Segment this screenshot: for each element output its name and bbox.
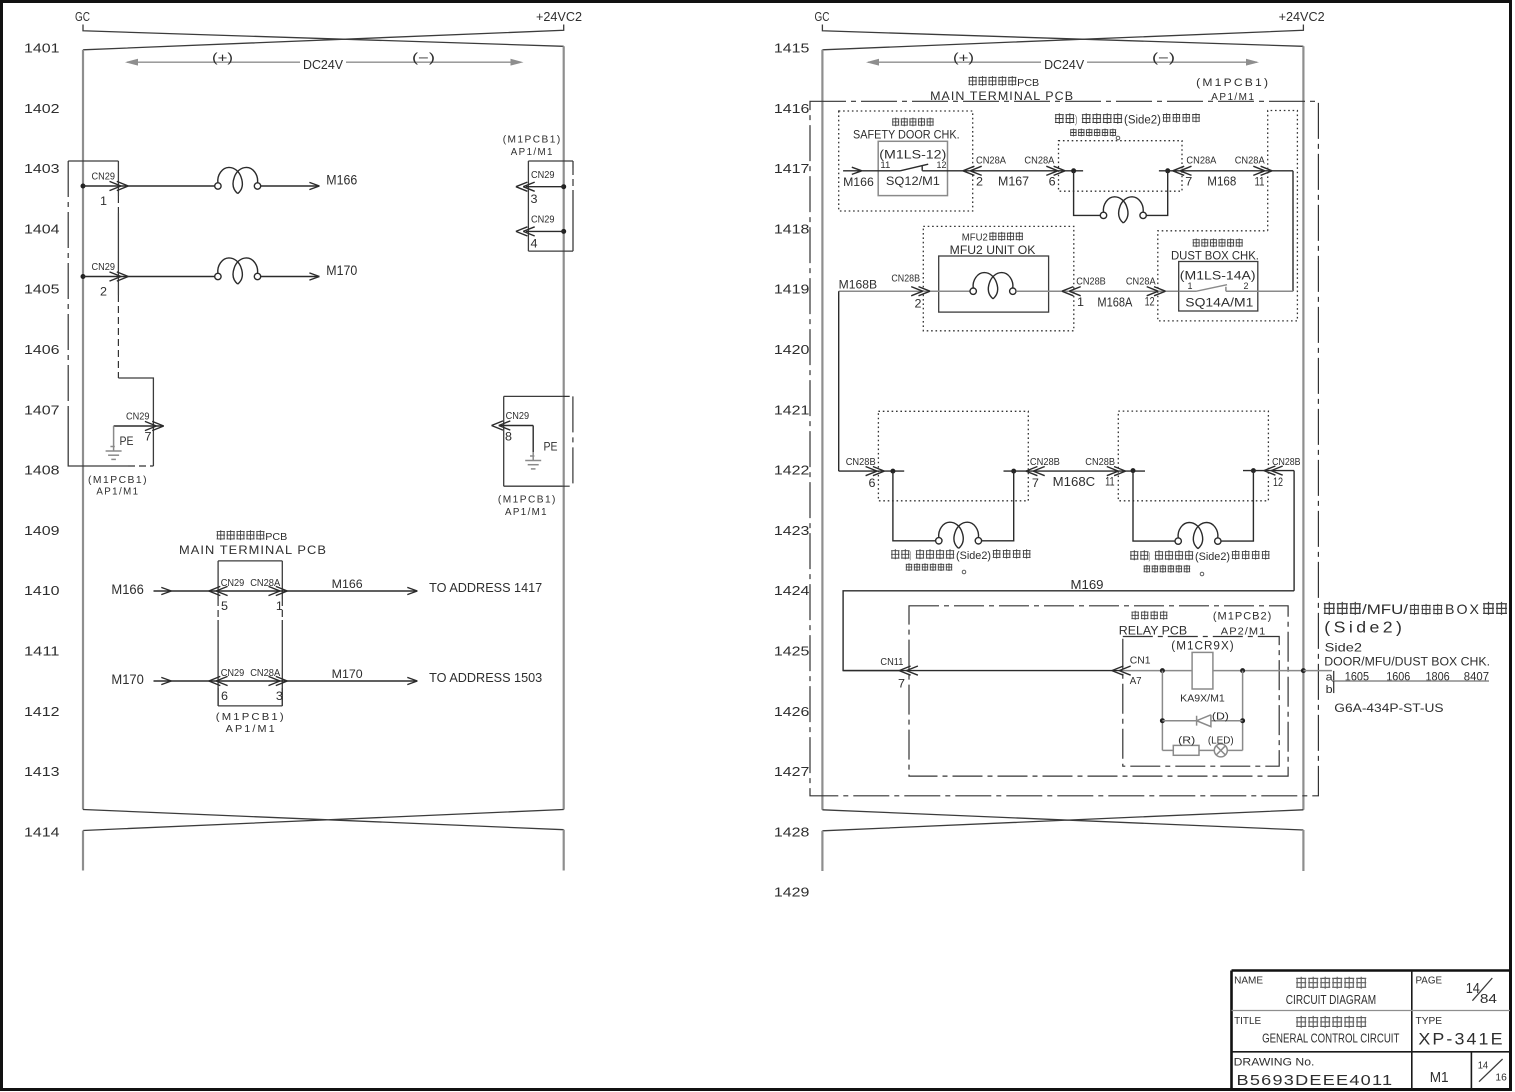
svg-text:MFU2 UNIT OK: MFU2 UNIT OK bbox=[950, 245, 1036, 257]
connector CN28B pin 7 bbox=[1026, 467, 1045, 476]
svg-text:CN28A: CN28A bbox=[250, 667, 280, 679]
svg-text:1426: 1426 bbox=[774, 704, 810, 719]
arrow to M166 bbox=[309, 182, 319, 189]
connector CN28A pin 3 bbox=[269, 676, 288, 685]
arrow to M170 bbox=[309, 273, 319, 280]
svg-text:CN28B: CN28B bbox=[891, 272, 920, 284]
svg-text:AP1/M1: AP1/M1 bbox=[505, 506, 548, 518]
connector box CN29 pin 8 / PE bbox=[504, 396, 563, 486]
connector CN29 pin 6 bbox=[209, 676, 228, 685]
svg-text:M170: M170 bbox=[111, 672, 143, 687]
wire +24VC2 bus (left) bbox=[563, 46, 565, 809]
svg-text:5: 5 bbox=[221, 599, 228, 613]
svg-text:DUST BOX CHK.: DUST BOX CHK. bbox=[1171, 250, 1259, 262]
svg-text:1428: 1428 bbox=[774, 824, 810, 839]
connector CN1 pin A7 bbox=[1112, 666, 1131, 675]
connector CN28B pin 6 bbox=[866, 467, 885, 476]
note dotted box (spare input row 1417) bbox=[1059, 141, 1183, 192]
label 安全扉/MFU/ダストBOX確認 bbox=[1324, 602, 1361, 615]
label 時はショートする。 bbox=[1070, 129, 1116, 137]
svg-text:1416: 1416 bbox=[774, 101, 810, 116]
junction node row 1417 right bbox=[1165, 168, 1170, 173]
wire M166 through terminal block bbox=[154, 590, 418, 592]
svg-text:TYPE: TYPE bbox=[1416, 1015, 1443, 1027]
svg-text:）: ） bbox=[910, 551, 915, 563]
svg-text:BOX: BOX bbox=[1445, 601, 1481, 617]
svg-text:/MFU/: /MFU/ bbox=[1362, 601, 1408, 617]
svg-text:1: 1 bbox=[276, 599, 283, 613]
svg-text:SQ14A/M1: SQ14A/M1 bbox=[1185, 298, 1253, 310]
connector CN29 pin 2 bbox=[110, 272, 129, 281]
svg-text:CN11: CN11 bbox=[880, 656, 903, 668]
relay inner chain box bbox=[1123, 637, 1279, 767]
wire coil to M170 arrow bbox=[261, 276, 320, 278]
svg-text:1412: 1412 bbox=[24, 704, 60, 719]
svg-text:1421: 1421 bbox=[774, 402, 810, 417]
wire CN11-7 to CN1-A7 bbox=[843, 670, 1123, 672]
connector CN28B pin 1 bbox=[1062, 287, 1081, 296]
svg-text:DC24V: DC24V bbox=[1044, 58, 1085, 72]
connector CN28A pin 1 bbox=[269, 586, 288, 595]
svg-text:GC: GC bbox=[75, 9, 90, 24]
svg-text:M168B: M168B bbox=[839, 280, 878, 292]
wire bus to CN29-4 bbox=[526, 230, 564, 232]
svg-text:2: 2 bbox=[915, 297, 922, 311]
connector CN29 pin 1 bbox=[110, 181, 129, 190]
note dotted box (spare input row 1422 left) bbox=[878, 411, 1028, 501]
junction on +24VC2 bus (CN29-4) bbox=[561, 229, 566, 234]
svg-text:12: 12 bbox=[1145, 295, 1155, 309]
svg-text:CN28A: CN28A bbox=[1235, 155, 1265, 167]
svg-text:11: 11 bbox=[1255, 175, 1265, 189]
svg-text:(M1PCB1): (M1PCB1) bbox=[88, 474, 148, 486]
svg-text:(−): (−) bbox=[1152, 51, 1175, 65]
box MFU2 unit bbox=[939, 256, 1049, 312]
svg-text:1401: 1401 bbox=[24, 41, 60, 56]
block MFU2 UNIT OK dotted outline bbox=[923, 226, 1074, 330]
wire CN1-A7 to relay coil bbox=[1123, 670, 1192, 672]
title block bbox=[1232, 971, 1511, 1090]
svg-text:1429: 1429 bbox=[774, 885, 810, 900]
wire row 1422 left bbox=[839, 470, 905, 472]
svg-text:1410: 1410 bbox=[24, 583, 60, 598]
svg-text:M168A: M168A bbox=[1097, 295, 1132, 310]
svg-text:MAIN TERMINAL PCB: MAIN TERMINAL PCB bbox=[179, 543, 327, 557]
svg-text:CN29: CN29 bbox=[126, 411, 150, 423]
junction row 1422 c bbox=[1131, 468, 1136, 473]
bus crossover top (left) bbox=[83, 25, 564, 50]
address line numbers 1415-1429 bbox=[774, 41, 810, 900]
note 時はショートする。 (left) bbox=[906, 563, 953, 571]
address line numbers 1401-1414 bbox=[24, 41, 60, 840]
svg-text:1411: 1411 bbox=[24, 644, 60, 659]
wire M170 through terminal block bbox=[154, 680, 418, 682]
arrow to address 1417 bbox=[407, 587, 417, 594]
page slash bbox=[1472, 978, 1492, 1001]
svg-text:TO ADDRESS 1417: TO ADDRESS 1417 bbox=[429, 581, 542, 595]
wire CN29-8 to PE bbox=[499, 425, 533, 427]
resistor R bbox=[1162, 749, 1173, 751]
svg-text:PE: PE bbox=[120, 436, 134, 448]
svg-text:(M1PCB1): (M1PCB1) bbox=[503, 134, 562, 146]
svg-text:CN29: CN29 bbox=[92, 261, 116, 273]
svg-text:CN28B: CN28B bbox=[846, 456, 876, 468]
wire coil to M166 arrow bbox=[261, 185, 320, 187]
svg-text:CN29: CN29 bbox=[531, 169, 555, 181]
svg-text:SQ12/M1: SQ12/M1 bbox=[886, 176, 940, 188]
svg-text:7: 7 bbox=[1032, 476, 1039, 490]
svg-text:(−): (−) bbox=[412, 51, 435, 65]
junction relay right bbox=[1240, 668, 1245, 673]
svg-text:(M1PCB1): (M1PCB1) bbox=[1196, 77, 1270, 89]
PCB M1PCB1 outline (left, CN29 connector region) bbox=[68, 160, 118, 162]
wire bridge with coupling coil (row 1417-1418) bbox=[1074, 171, 1168, 216]
svg-text:M168C: M168C bbox=[1053, 474, 1096, 489]
junction row 1422 d bbox=[1251, 468, 1256, 473]
diode D bbox=[1197, 715, 1211, 727]
svg-text:CN28B: CN28B bbox=[1076, 276, 1106, 288]
wire GC bus (right) bbox=[821, 50, 823, 810]
switch box M1LS-14A bbox=[1179, 262, 1258, 312]
svg-text:(M1PCB2): (M1PCB2) bbox=[1213, 611, 1272, 623]
svg-text:1402: 1402 bbox=[24, 101, 60, 116]
connector CN29 pin 7 bbox=[145, 421, 164, 430]
svg-text:）: ） bbox=[1149, 552, 1154, 564]
ground PE (left) bbox=[106, 426, 122, 459]
svg-text:AP1/M1: AP1/M1 bbox=[226, 723, 277, 735]
svg-text:PCB: PCB bbox=[265, 531, 287, 543]
svg-text:(M1PCB1): (M1PCB1) bbox=[216, 711, 286, 723]
svg-text:M170: M170 bbox=[326, 263, 357, 278]
svg-text:CN1: CN1 bbox=[1130, 654, 1151, 666]
svg-text:B5693DEEE4011: B5693DEEE4011 bbox=[1237, 1073, 1394, 1089]
svg-text:2: 2 bbox=[100, 285, 107, 299]
svg-text:1424: 1424 bbox=[774, 583, 810, 598]
svg-text:(D): (D) bbox=[1212, 712, 1229, 723]
svg-text:(+): (+) bbox=[212, 51, 233, 65]
PCB boundary chain (right PE box) bbox=[572, 396, 574, 486]
svg-text:CN28B: CN28B bbox=[1272, 456, 1300, 468]
svg-text:M168: M168 bbox=[1207, 174, 1236, 189]
ground PE (right) bbox=[525, 452, 541, 469]
svg-text:M166: M166 bbox=[111, 582, 143, 597]
svg-text:GC: GC bbox=[815, 9, 830, 24]
wire +24VC2 bus stub bottom (left) bbox=[563, 830, 565, 871]
arrow M166 in bbox=[852, 167, 862, 174]
wire GC bus (left) bbox=[82, 50, 84, 810]
svg-text:1419: 1419 bbox=[774, 282, 810, 297]
svg-text:1407: 1407 bbox=[24, 402, 60, 417]
svg-text:M166: M166 bbox=[843, 177, 874, 189]
connector CN11 pin 7 bbox=[899, 666, 918, 675]
svg-text:1414: 1414 bbox=[24, 824, 60, 839]
svg-text:M1: M1 bbox=[1430, 1070, 1449, 1086]
svg-text:CN29: CN29 bbox=[221, 577, 245, 589]
svg-text:8: 8 bbox=[505, 430, 512, 444]
bus crossover bottom (left) bbox=[83, 810, 564, 831]
svg-text:CN28A: CN28A bbox=[976, 155, 1006, 167]
svg-text:）: ） bbox=[1075, 114, 1081, 127]
coupling coil MFU2 bbox=[970, 273, 1016, 299]
svg-text:CN28A: CN28A bbox=[250, 577, 280, 589]
svg-text:RELAY PCB: RELAY PCB bbox=[1119, 626, 1188, 638]
svg-text:1415: 1415 bbox=[774, 41, 810, 56]
connector CN29 pin 8 bbox=[492, 421, 511, 430]
svg-text:CN28A: CN28A bbox=[1126, 276, 1156, 288]
svg-text:7: 7 bbox=[1185, 175, 1192, 189]
connector CN28A pin 6 bbox=[1046, 166, 1065, 175]
connector CN29 pin 3 bbox=[516, 182, 535, 191]
svg-text:CN29: CN29 bbox=[92, 171, 116, 183]
diode branch bbox=[1162, 671, 1242, 751]
svg-text:(Side2): (Side2) bbox=[1195, 551, 1230, 563]
connector CN29 pin 4 bbox=[516, 227, 535, 236]
wire vertical to SQ14A bbox=[1292, 171, 1294, 291]
wire CN28B-12 down to M169 bbox=[1293, 471, 1295, 591]
bus crossover bottom (right) bbox=[822, 810, 1303, 831]
wire bridge with coupling coil (row 1422-1423 left) bbox=[893, 471, 1014, 541]
svg-text:1404: 1404 bbox=[24, 221, 60, 236]
svg-text:(Side2): (Side2) bbox=[956, 550, 991, 562]
wire +24VC2 bus stub bottom (right) bbox=[1302, 830, 1304, 871]
wire row 1405 from bus to CN29-2 bbox=[83, 276, 128, 278]
svg-text:2: 2 bbox=[976, 175, 983, 189]
wire bus to CN29-3 bbox=[526, 186, 564, 188]
junction node row 1417 left bbox=[1071, 168, 1076, 173]
note dotted box (spare input row 1422 right) bbox=[1118, 411, 1268, 501]
svg-text:6: 6 bbox=[221, 689, 228, 703]
junction on +24VC2 bus (relay) bbox=[1301, 668, 1306, 673]
svg-text:1417: 1417 bbox=[774, 161, 810, 176]
junction row 1422 b bbox=[1011, 469, 1016, 474]
svg-text:12: 12 bbox=[1273, 475, 1283, 489]
wire M168C bbox=[1004, 470, 1146, 472]
svg-text:KA9X/M1: KA9X/M1 bbox=[1180, 693, 1225, 705]
svg-text:TITLE: TITLE bbox=[1234, 1015, 1261, 1027]
switch SQ14A/M1 limit switch contact bbox=[1179, 285, 1293, 292]
title 総合制御回路 bbox=[1296, 1016, 1366, 1028]
svg-text:1418: 1418 bbox=[774, 221, 810, 236]
svg-text:M170: M170 bbox=[332, 667, 363, 681]
label メイン中継PCB (right) bbox=[968, 76, 1016, 86]
junction on GC bus row 1403 bbox=[81, 184, 86, 189]
junction diode left bbox=[1160, 718, 1165, 723]
wire +24VC2 bus (right) bbox=[1302, 46, 1304, 810]
coupling coil L row 1403 bbox=[215, 167, 261, 193]
switch SQ12/M1 limit switch contact bbox=[843, 164, 1083, 171]
wire CN29-1 to coil bbox=[128, 185, 214, 187]
svg-text:CN28A: CN28A bbox=[1186, 155, 1216, 167]
svg-text:TO ADDRESS 1503: TO ADDRESS 1503 bbox=[429, 671, 542, 685]
connector CN28A pin 11 bbox=[1253, 166, 1272, 175]
svg-text:CN29: CN29 bbox=[531, 214, 555, 226]
svg-text:PCB: PCB bbox=[1017, 77, 1039, 89]
svg-text:+24VC2: +24VC2 bbox=[536, 9, 582, 24]
junction on +24VC2 bus (CN29-3) bbox=[561, 184, 566, 189]
svg-text:1423: 1423 bbox=[774, 523, 810, 538]
svg-text:(Side2): (Side2) bbox=[1324, 620, 1405, 637]
svg-text:PAGE: PAGE bbox=[1416, 974, 1443, 986]
svg-text:1427: 1427 bbox=[774, 764, 810, 779]
svg-text:M167: M167 bbox=[998, 174, 1029, 189]
junction relay left bbox=[1160, 668, 1165, 673]
connector box CN29/CN28A (main terminal pcb left) bbox=[218, 561, 282, 706]
svg-text:11: 11 bbox=[1105, 474, 1115, 488]
label 安全扉確認 bbox=[892, 118, 934, 127]
wire M168B vertical to row 1422 bbox=[838, 291, 840, 471]
svg-text:3: 3 bbox=[276, 689, 283, 703]
wire M168B (row 1419) bbox=[839, 290, 970, 292]
svg-text:7: 7 bbox=[145, 430, 152, 444]
PCB RELAY PCB chain box bbox=[909, 606, 1288, 776]
svg-text:A7: A7 bbox=[1130, 675, 1142, 687]
wire M169 bbox=[843, 591, 1294, 671]
svg-text:(M1CR9X): (M1CR9X) bbox=[1171, 640, 1234, 652]
svg-text:7: 7 bbox=[898, 677, 905, 691]
connector CN28B pin 11 bbox=[1107, 467, 1126, 476]
svg-text:1420: 1420 bbox=[774, 342, 810, 357]
junction row 1422 a bbox=[890, 469, 895, 474]
wire CN29-2 to coil bbox=[128, 276, 214, 278]
svg-text:2: 2 bbox=[1244, 281, 1249, 292]
svg-text:12: 12 bbox=[937, 160, 947, 171]
wire to Side2 contact a bbox=[1303, 670, 1332, 672]
label 注)予備入力(Side2)の付かない bbox=[1055, 113, 1074, 124]
svg-text:GENERAL CONTROL CIRCUIT: GENERAL CONTROL CIRCUIT bbox=[1262, 1031, 1400, 1045]
svg-text:1422: 1422 bbox=[774, 463, 810, 478]
junction on GC bus row 1405 bbox=[81, 274, 86, 279]
wire GC bus stub bottom (right) bbox=[821, 831, 823, 871]
wire relay coil to bus bbox=[1213, 670, 1304, 672]
svg-text:1409: 1409 bbox=[24, 523, 60, 538]
svg-text:AP1/M1: AP1/M1 bbox=[511, 146, 554, 158]
connector CN29 pin 5 bbox=[209, 586, 228, 595]
svg-text:84: 84 bbox=[1480, 991, 1497, 1006]
svg-text:14: 14 bbox=[1478, 1060, 1489, 1072]
svg-text:1405: 1405 bbox=[24, 282, 60, 297]
svg-text:Side2: Side2 bbox=[1325, 641, 1363, 655]
DC24V polarity arrow (right) bbox=[868, 61, 1257, 63]
svg-text:PE: PE bbox=[544, 442, 558, 454]
connector CN28A pin 2 bbox=[963, 166, 982, 175]
note 注)予備入力(Side2)の付かない (left) bbox=[891, 549, 909, 559]
svg-text:b: b bbox=[1326, 684, 1333, 696]
connector CN28A pin 12 bbox=[1147, 287, 1166, 296]
svg-text:(M1PCB1): (M1PCB1) bbox=[498, 494, 557, 506]
label 残テープ有無 bbox=[1193, 239, 1243, 248]
svg-text:(Side2): (Side2) bbox=[1124, 115, 1161, 127]
svg-text:6: 6 bbox=[869, 476, 876, 490]
svg-text:CN28B: CN28B bbox=[1085, 456, 1115, 468]
coupling coil (spare input bridge) bbox=[1100, 197, 1146, 223]
svg-text:(LED): (LED) bbox=[1208, 736, 1234, 747]
note 時はショートする。 (right) bbox=[1144, 565, 1191, 573]
connector CN28A pin 7 bbox=[1173, 166, 1192, 175]
svg-text:11: 11 bbox=[880, 160, 890, 171]
title 電気回路線図 bbox=[1296, 977, 1366, 989]
wire PE to CN29-7 bbox=[114, 425, 164, 427]
svg-text:1: 1 bbox=[100, 194, 107, 208]
note 注)予備入力(Side2)の付かない (right) bbox=[1130, 550, 1148, 560]
svg-text:DC24V: DC24V bbox=[303, 58, 344, 72]
label リレー基板 bbox=[1131, 611, 1167, 620]
svg-text:XP-341E: XP-341E bbox=[1418, 1030, 1504, 1049]
svg-text:AP2/M1: AP2/M1 bbox=[1221, 626, 1267, 638]
svg-text:1425: 1425 bbox=[774, 644, 810, 659]
svg-text:CN29: CN29 bbox=[221, 667, 245, 679]
wire row 1403 from bus to CN29-1 bbox=[83, 185, 128, 187]
svg-text:(+): (+) bbox=[953, 51, 974, 65]
svg-text:6: 6 bbox=[1049, 175, 1056, 189]
block SAFETY DOOR CHK dotted outline bbox=[839, 111, 973, 211]
DC24V polarity arrow (left) bbox=[127, 61, 521, 63]
svg-text:16: 16 bbox=[1495, 1072, 1507, 1084]
svg-text:DOOR/MFU/DUST BOX CHK.: DOOR/MFU/DUST BOX CHK. bbox=[1324, 657, 1490, 669]
junction diode right bbox=[1240, 718, 1245, 723]
svg-text:CN29: CN29 bbox=[506, 410, 530, 422]
relay coil KA9X/M1 bbox=[1192, 652, 1213, 689]
wire M168 right segment bbox=[1159, 170, 1293, 172]
svg-text:1406: 1406 bbox=[24, 342, 60, 357]
label メイン中継PCB (left block) bbox=[217, 530, 265, 540]
coupling coil (spare bridge right) bbox=[1175, 523, 1221, 549]
svg-text:M166: M166 bbox=[332, 577, 363, 591]
svg-text:(R): (R) bbox=[1178, 736, 1195, 747]
svg-text:NAME: NAME bbox=[1234, 974, 1263, 986]
svg-text:DRAWING No.: DRAWING No. bbox=[1234, 1057, 1315, 1069]
dotted outline (spare contact column right) bbox=[1158, 111, 1298, 321]
svg-text:CN28B: CN28B bbox=[1030, 456, 1060, 468]
switch box M1LS-12 bbox=[878, 141, 947, 195]
svg-text:1: 1 bbox=[1077, 295, 1084, 309]
svg-text:1408: 1408 bbox=[24, 463, 60, 478]
svg-text:1: 1 bbox=[1188, 281, 1193, 292]
svg-text:G6A-434P-ST-US: G6A-434P-ST-US bbox=[1334, 701, 1443, 715]
svg-text:1413: 1413 bbox=[24, 764, 60, 779]
svg-text:SAFETY DOOR CHK.: SAFETY DOOR CHK. bbox=[853, 130, 960, 142]
svg-text:MAIN TERMINAL PCB: MAIN TERMINAL PCB bbox=[930, 89, 1074, 103]
sheet slash bbox=[1479, 1059, 1503, 1082]
wire bridge with coupling coil (row 1422-1423 right) bbox=[1133, 471, 1253, 541]
svg-text:AP1/M1: AP1/M1 bbox=[96, 486, 139, 498]
connector CN28B pin 12 bbox=[1264, 466, 1283, 475]
svg-text:M169: M169 bbox=[1071, 577, 1104, 592]
connector CN28B pin 2 bbox=[911, 287, 930, 296]
coupling coil L row 1405 bbox=[215, 258, 261, 284]
svg-text:4: 4 bbox=[531, 237, 538, 251]
svg-text:MFU2: MFU2 bbox=[962, 231, 988, 243]
connector box CN29 pins 3,4 bbox=[528, 161, 573, 251]
svg-text:M166: M166 bbox=[326, 173, 357, 188]
svg-text:CN28A: CN28A bbox=[1024, 155, 1054, 167]
bus crossover top (right) bbox=[822, 25, 1303, 50]
svg-text:+24VC2: +24VC2 bbox=[1279, 9, 1325, 24]
svg-text:1403: 1403 bbox=[24, 161, 60, 176]
wire GC bus stub bottom (left) bbox=[82, 831, 84, 871]
arrow to address 1503 bbox=[407, 677, 417, 684]
svg-text:3: 3 bbox=[531, 192, 538, 206]
svg-text:CIRCUIT DIAGRAM: CIRCUIT DIAGRAM bbox=[1286, 993, 1376, 1007]
contact table line bbox=[1332, 680, 1489, 682]
LED lamp bbox=[1199, 749, 1214, 751]
coupling coil (spare bridge left) bbox=[936, 522, 982, 548]
PCB M1PCB1 boundary chain box (right half) bbox=[810, 101, 1318, 796]
